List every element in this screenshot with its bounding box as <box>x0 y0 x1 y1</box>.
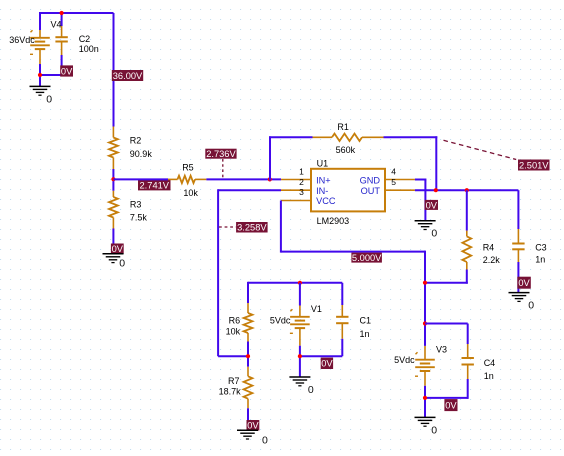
resistor R2 <box>109 127 118 170</box>
wire V1 bottom rail to C1 <box>300 355 342 357</box>
resistor R3 <box>109 191 118 229</box>
wire C2 bottom lead <box>61 55 63 75</box>
ground 0 (C3) <box>509 293 535 312</box>
svg-text:2.2k: 2.2k <box>483 255 501 265</box>
battery V1 5Vdc <box>299 283 301 306</box>
op-amp U1 LM2903 <box>281 169 415 212</box>
voltage label 2.501V <box>518 160 550 171</box>
wire pin4 to ground corner <box>415 179 427 181</box>
resistor R6 <box>244 303 253 342</box>
svg-text:560k: 560k <box>336 145 356 155</box>
wire C4 top branch <box>425 323 468 325</box>
svg-text:3.258V: 3.258V <box>237 223 267 233</box>
capacitor C2 <box>55 26 67 55</box>
svg-text:10k: 10k <box>226 327 241 337</box>
svg-text:C4: C4 <box>484 358 496 368</box>
wire C4 bottom <box>467 379 469 399</box>
probe dashed line 2.736V <box>222 159 224 178</box>
svg-text:100n: 100n <box>79 44 99 54</box>
svg-text:0: 0 <box>528 300 534 312</box>
wire IN- net horizontal <box>218 189 281 191</box>
voltage label 0V (R3) <box>111 244 124 255</box>
voltage label 0V (C3) <box>517 277 531 289</box>
svg-text:C3: C3 <box>535 243 547 253</box>
battery V3 5Vdc <box>415 346 435 386</box>
voltage label 0V (U1 gnd) <box>425 200 438 210</box>
svg-text:5.000V: 5.000V <box>352 253 382 263</box>
svg-text:0V: 0V <box>321 359 333 369</box>
wire R2 to node <box>112 169 114 191</box>
svg-text:0: 0 <box>262 435 268 447</box>
capacitor C3 <box>512 229 524 262</box>
node junction V4 bottom <box>38 73 42 77</box>
ground 0 (R3) <box>103 254 126 269</box>
wire pin5 output net <box>415 189 519 191</box>
battery V4 36Vdc <box>30 30 50 64</box>
wire VCC horizontal 5V rail <box>281 251 425 253</box>
svg-text:1: 1 <box>299 167 304 177</box>
svg-text:IN-: IN- <box>316 186 328 196</box>
svg-text:0V: 0V <box>445 401 457 411</box>
resistor R4 <box>466 190 468 230</box>
node junction IN+/R1 <box>268 177 272 181</box>
svg-text:U1: U1 <box>317 159 329 169</box>
svg-text:V4: V4 <box>51 20 62 30</box>
voltage label 2.741V <box>138 180 171 190</box>
wire to R1 <box>269 136 313 138</box>
probe dashed line 3.258V <box>219 226 236 228</box>
svg-text:90.9k: 90.9k <box>130 149 153 159</box>
voltage label 0V (V3) <box>444 399 457 411</box>
svg-text:0: 0 <box>431 424 437 436</box>
wire VCC vertical <box>280 201 282 253</box>
svg-text:36Vdc: 36Vdc <box>9 35 35 45</box>
svg-text:R3: R3 <box>130 200 142 210</box>
voltage label 0V (R7) <box>247 420 260 431</box>
wire bottom net to C2 <box>40 74 62 76</box>
wire output vertical <box>435 136 437 190</box>
svg-text:C2: C2 <box>79 34 91 44</box>
voltage label 0V (V4 node) <box>60 65 73 76</box>
ground 0 (U1) <box>415 221 438 240</box>
svg-text:R2: R2 <box>130 136 142 146</box>
wire R1 to output corner <box>384 136 438 138</box>
wire IN+ node up <box>269 136 271 180</box>
wire top net 36V horizontal <box>40 12 114 14</box>
wire R6 bottom <box>247 342 249 367</box>
wire V1 top rail <box>248 282 342 284</box>
wire V1 bottom <box>299 346 301 377</box>
svg-text:0: 0 <box>308 384 314 396</box>
wire R5 to IN+ node <box>206 178 281 180</box>
svg-text:2.741V: 2.741V <box>140 181 170 191</box>
node junction R6/R7 <box>246 354 250 358</box>
wire V4 bottom <box>39 64 41 86</box>
resistor R7 <box>244 367 253 409</box>
svg-text:5: 5 <box>391 177 396 187</box>
wire IN- net vertical <box>217 189 219 356</box>
svg-text:18.7k: 18.7k <box>219 387 242 397</box>
svg-text:1n: 1n <box>484 371 494 381</box>
wire R4 bottom to 5V rail <box>466 270 468 284</box>
node junction V1 top <box>298 281 302 285</box>
resistor R1 <box>313 134 384 141</box>
wire V3 bottom <box>424 386 426 418</box>
svg-text:VCC: VCC <box>316 196 336 206</box>
svg-text:C1: C1 <box>360 316 372 326</box>
svg-text:0V: 0V <box>518 278 530 288</box>
svg-text:5Vdc: 5Vdc <box>394 355 415 365</box>
node junction top (V4/C2) <box>60 11 64 15</box>
voltage label 0V (V1) <box>321 358 333 369</box>
svg-text:5Vdc: 5Vdc <box>270 316 291 326</box>
capacitor C4 <box>462 344 474 379</box>
node junction divider <box>111 177 115 181</box>
wire C1 bottom <box>341 339 343 356</box>
wire R7 to ground <box>247 408 249 430</box>
svg-text:LM2903: LM2903 <box>317 216 350 226</box>
voltage label 5.000V <box>351 253 382 263</box>
wire IN- net to R6 <box>218 355 248 357</box>
wire 5V rail down to V3 <box>424 251 426 346</box>
svg-text:2.501V: 2.501V <box>519 160 549 170</box>
svg-text:R7: R7 <box>228 376 240 386</box>
svg-text:R6: R6 <box>229 315 241 325</box>
svg-text:1n: 1n <box>360 329 370 339</box>
svg-text:0V: 0V <box>112 244 124 254</box>
svg-text:OUT: OUT <box>361 186 381 196</box>
ground 0 (V3) <box>415 417 438 436</box>
svg-text:2.736V: 2.736V <box>206 149 236 159</box>
svg-text:4: 4 <box>391 167 396 177</box>
resistor R5 <box>168 176 206 183</box>
svg-text:R4: R4 <box>483 243 495 253</box>
svg-text:0: 0 <box>119 257 125 269</box>
svg-text:GND: GND <box>360 175 381 185</box>
ground 0 (V4) <box>30 86 53 105</box>
svg-text:0: 0 <box>431 228 437 240</box>
svg-text:0: 0 <box>46 93 52 105</box>
svg-text:R1: R1 <box>337 122 349 132</box>
svg-text:1n: 1n <box>535 254 545 264</box>
svg-text:2: 2 <box>299 177 304 187</box>
svg-text:36.00V: 36.00V <box>113 71 143 81</box>
wire output to C3 <box>517 190 519 229</box>
capacitor C1 <box>341 283 343 305</box>
node junction R4/5V <box>423 281 427 285</box>
node junction output/R1 <box>434 188 438 192</box>
wire 36V vertical to R2 <box>113 13 115 127</box>
voltage label 3.258V <box>236 222 268 233</box>
node junction V3 bottom <box>423 396 427 400</box>
voltage label 2.736V <box>205 149 236 159</box>
svg-text:R5: R5 <box>182 163 194 173</box>
svg-text:V1: V1 <box>311 304 322 314</box>
wire C3 to ground <box>517 262 519 293</box>
wire R6 top lead <box>247 282 249 303</box>
svg-text:0V: 0V <box>61 66 73 76</box>
node junction C4/V3 top <box>423 321 427 325</box>
ground 0 (V1) <box>289 377 314 396</box>
svg-text:0V: 0V <box>247 421 259 431</box>
svg-text:7.5k: 7.5k <box>130 212 148 222</box>
svg-text:10k: 10k <box>183 188 198 198</box>
probe dashed line 2.501V <box>444 140 517 159</box>
svg-text:V3: V3 <box>436 345 447 355</box>
wire R3 to ground <box>112 229 114 254</box>
node junction V1 bottom <box>298 354 302 358</box>
wire divider node to R5 <box>113 178 168 180</box>
ground 0 (R7) <box>237 430 268 447</box>
node junction output/R4 <box>465 188 469 192</box>
svg-text:IN+: IN+ <box>316 175 331 185</box>
svg-text:0V: 0V <box>426 200 438 210</box>
wire V4 top lead <box>39 12 41 30</box>
voltage label 36.00V <box>112 70 143 81</box>
svg-text:3: 3 <box>299 187 304 197</box>
wire C2 top lead <box>61 13 63 26</box>
